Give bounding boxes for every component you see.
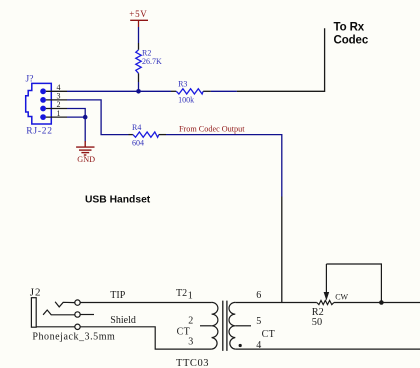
- wire from codec output: [166, 135, 282, 197]
- wire R2 to bus: [138, 82, 140, 91]
- svg-text:R4: R4: [132, 123, 141, 132]
- tip contact circle: [75, 300, 80, 305]
- power +5V: [130, 20, 148, 27]
- wire pin4 bus: [67, 90, 171, 92]
- wire R3 navy: [211, 90, 237, 92]
- svg-text:R3: R3: [178, 80, 187, 89]
- svg-text:604: 604: [132, 139, 144, 148]
- junction dot: [136, 89, 141, 94]
- transformer T2 right winding: [229, 302, 235, 349]
- svg-text:From Codec Output: From Codec Output: [179, 125, 245, 134]
- ground: [76, 141, 94, 155]
- svg-text:T2: T2: [176, 288, 187, 299]
- tip contact: [55, 302, 75, 307]
- svg-text:J2: J2: [30, 286, 42, 298]
- pin R2 top: [138, 43, 140, 50]
- svg-text:2: 2: [188, 315, 193, 326]
- wire pot to right edge: [334, 302, 420, 304]
- sleeve contact circle: [75, 324, 80, 329]
- junction dot pot: [379, 300, 384, 305]
- svg-text:CT: CT: [262, 329, 276, 340]
- svg-text:Shield: Shield: [110, 315, 136, 326]
- wire T2 pin6 out: [235, 302, 316, 304]
- svg-text:J?: J?: [26, 75, 34, 85]
- wire TIP to T2 pin1: [80, 302, 211, 304]
- wire +5V to R2: [138, 27, 140, 43]
- svg-text:GND: GND: [77, 155, 95, 164]
- wire pin1: [67, 116, 85, 118]
- svg-text:5: 5: [256, 316, 261, 327]
- wire to gnd: [84, 117, 86, 142]
- pin R4 right: [159, 134, 166, 136]
- transformer core: [223, 301, 227, 351]
- ring stub: [80, 314, 94, 316]
- svg-text:2: 2: [57, 100, 61, 109]
- svg-text:RJ-22: RJ-22: [26, 126, 52, 136]
- ring contact chevron: [43, 310, 75, 315]
- pin leads black: [46, 91, 67, 117]
- wire pin2: [67, 109, 85, 118]
- T2 pin5 stub: [235, 325, 251, 327]
- resistor R2: [136, 50, 141, 74]
- svg-text:To Rx: To Rx: [334, 22, 365, 34]
- svg-text:Codec: Codec: [334, 34, 369, 46]
- svg-text:26.7K: 26.7K: [142, 57, 162, 66]
- svg-text:Phonejack_3.5mm: Phonejack_3.5mm: [32, 332, 115, 343]
- sleeve line: [36, 326, 75, 328]
- pin R3 left: [171, 90, 176, 92]
- pot feedback wire: [326, 264, 381, 303]
- svg-text:+5V: +5V: [129, 9, 147, 19]
- svg-text:CW: CW: [335, 293, 348, 302]
- pin R4 left: [129, 134, 133, 136]
- pin R2 bottom: [138, 73, 140, 82]
- potentiometer R2 body: [317, 300, 334, 304]
- wire black to Rx codec: [237, 28, 325, 91]
- svg-text:TIP: TIP: [110, 290, 125, 301]
- svg-text:USB Handset: USB Handset: [85, 194, 151, 205]
- connector pins circles: [40, 88, 46, 120]
- T2 pin2 stub: [200, 325, 212, 327]
- pin R3 right: [203, 90, 211, 92]
- pot wiper arrow: [325, 264, 327, 293]
- svg-text:50: 50: [312, 317, 322, 328]
- wire black down to T2 pin6: [281, 197, 283, 303]
- svg-text:TTC03: TTC03: [176, 358, 209, 368]
- svg-text:4: 4: [57, 83, 61, 92]
- svg-text:6: 6: [256, 290, 261, 301]
- svg-text:100k: 100k: [178, 95, 194, 104]
- polarity dot: [239, 344, 242, 347]
- phonejack body J2: [31, 298, 36, 328]
- connector J1 outline: [26, 83, 52, 124]
- wire pin3: [67, 100, 129, 135]
- junction dot: [83, 115, 88, 120]
- resistor R4: [133, 132, 159, 137]
- svg-text:3: 3: [188, 336, 193, 347]
- wire T2 pin4 out: [235, 348, 420, 350]
- wire Shield to T2 pin3: [80, 327, 211, 349]
- ring contact circle: [75, 312, 80, 317]
- svg-text:1: 1: [188, 290, 193, 301]
- transformer T2 left winding: [212, 302, 218, 349]
- resistor R3: [176, 89, 203, 94]
- svg-text:1: 1: [57, 109, 61, 118]
